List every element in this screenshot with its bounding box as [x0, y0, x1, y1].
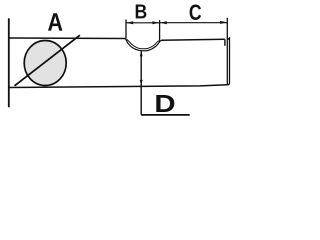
extension line B left: [125, 20, 127, 39]
bar top edge (right of notch): [161, 39, 225, 40]
bar bottom edge: [9, 85, 228, 88]
label D: [156, 95, 174, 112]
label C: [190, 4, 201, 20]
label A: [48, 13, 62, 30]
label B: [136, 5, 147, 19]
label D underline: [141, 114, 190, 116]
arrowhead B right: [152, 21, 159, 24]
bar right end rear edge with depth: [227, 38, 229, 85]
arrowhead C left: [160, 21, 167, 24]
bar right end front edge: [224, 39, 226, 45]
bar top edge (left of notch): [9, 37, 126, 40]
arrowhead D up (tip at notch bottom): [140, 51, 143, 56]
leader line D: [140, 51, 142, 115]
extension line C right: [226, 18, 228, 85]
notch outer profile: [125, 39, 161, 51]
dimension line C: [160, 22, 228, 24]
arrowhead B left: [126, 21, 133, 24]
left extension line: [8, 18, 10, 107]
arrowhead C right: [220, 21, 227, 24]
notch inner (far wall) profile: [127, 39, 160, 48]
extension line B/C shared: [159, 20, 161, 40]
hole (feature A): [24, 41, 66, 86]
arrowhead D down (tip at bar bottom edge): [140, 80, 143, 86]
leader line through hole: [15, 35, 80, 86]
dimension line B: [126, 22, 160, 24]
